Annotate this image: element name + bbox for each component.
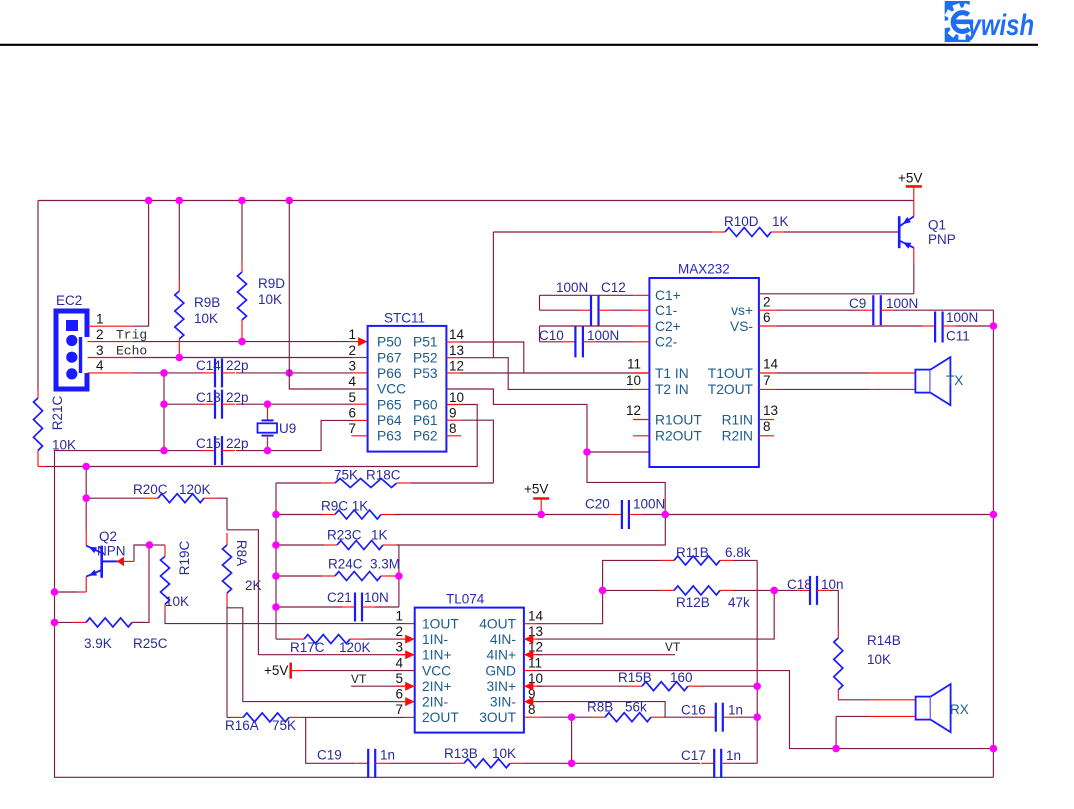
RX top red lead [869, 699, 916, 701]
svg-text:R24C: R24C [328, 557, 363, 572]
wire R10D to Q1 base [784, 231, 899, 233]
resistor R14B 10K [834, 629, 843, 700]
capacitor C20 100N [609, 500, 642, 529]
junction ladder R9C [272, 511, 280, 519]
wire R18C row left [276, 482, 321, 484]
wire Trig row [133, 341, 351, 343]
wire R17C row left [276, 638, 291, 640]
MAX232 C1- stub [633, 309, 649, 311]
TL074 pin11 stub [524, 670, 537, 672]
wire C18 to R14B [830, 590, 838, 629]
resistor R25C 3.9K [73, 618, 145, 627]
capacitor C19 1n [355, 749, 388, 778]
wire C2- row left [540, 341, 563, 343]
wire C13 row to STC11 pin5 [236, 403, 352, 405]
svg-text:120K: 120K [179, 482, 211, 497]
wire STC11 row4 right net [446, 389, 665, 515]
wire R23C-C21 vertical [398, 545, 400, 607]
STC11 pin5 stub [352, 403, 368, 405]
TL074 pin6 arrow [405, 697, 415, 706]
resistor R15B 160 [629, 682, 701, 691]
junction RX GND [832, 745, 840, 753]
wire R18C row right [411, 482, 493, 484]
junction P60 row Q2 collector [82, 463, 90, 471]
svg-text:1K: 1K [371, 528, 388, 543]
resistor R16A 75K [230, 713, 302, 722]
power +5V TL074 lead [291, 670, 306, 672]
Q2 base red lead [124, 560, 134, 562]
junction C13 left [160, 400, 168, 408]
wire to MAX232 bottom left [587, 451, 666, 453]
wire R14B to RX top [838, 699, 869, 701]
svg-text:TL074: TL074 [446, 592, 485, 607]
svg-text:10K: 10K [194, 311, 218, 326]
wire R19C bottom to TL074 pin1 [165, 613, 405, 624]
svg-text:STC11: STC11 [384, 311, 425, 326]
svg-text:R10D: R10D [724, 214, 759, 229]
wire 4OUT up to R11B [537, 560, 662, 623]
resistor R9C 1K [322, 510, 394, 519]
wire Q1 base net vertical [492, 232, 494, 358]
svg-text:5: 5 [348, 390, 356, 405]
speaker RX [916, 684, 951, 732]
svg-text:C2-: C2- [655, 335, 677, 350]
svg-text:VT: VT [351, 672, 367, 687]
wire C1- row left [540, 309, 579, 311]
svg-text:C15: C15 [196, 436, 221, 451]
MAX232 R1IN stub [759, 419, 774, 421]
TL074 pin8 stub [524, 716, 542, 718]
junction right rail C11 row [990, 322, 998, 330]
junction R24C right [395, 572, 403, 580]
svg-text:R14B: R14B [867, 633, 901, 648]
svg-text:2IN-: 2IN- [422, 694, 448, 709]
junction ground R25C [51, 619, 59, 627]
svg-text:Q2: Q2 [99, 529, 117, 544]
MAX232 T2IN stub [633, 388, 649, 390]
STC11 pin7 stub [351, 435, 367, 437]
wire cap ground vertical [163, 373, 165, 451]
resistor R24C 3.3M [322, 572, 394, 581]
TL074 pin10 arrow [524, 682, 534, 691]
wire rail to STC11 VCC [289, 201, 367, 390]
wire C21 row right [375, 606, 399, 608]
TX bottom red lead [869, 388, 915, 390]
svg-text:2K: 2K [245, 578, 262, 593]
svg-text:GND: GND [485, 663, 516, 678]
resistor R11B 6.8k [661, 556, 733, 565]
svg-text:C9: C9 [849, 296, 866, 311]
svg-text:R9C 1K: R9C 1K [321, 499, 368, 514]
resistor R9B 10K [175, 281, 184, 349]
wire R8A top to TL074 pin3 [227, 530, 405, 655]
TL074 pin5 arrow [405, 682, 415, 691]
svg-text:P65: P65 [377, 397, 402, 412]
wire 3OUT to node [542, 716, 571, 718]
svg-text:3: 3 [395, 640, 403, 655]
svg-text:vs+: vs+ [731, 303, 753, 318]
junction ladder R23C [272, 541, 280, 549]
resistor R8B 56k [592, 713, 664, 722]
svg-text:120K: 120K [339, 640, 371, 655]
svg-text:14: 14 [528, 609, 544, 624]
svg-text:+5V: +5V [264, 663, 288, 678]
svg-text:3.9K: 3.9K [84, 636, 112, 651]
TL074 pin1 stub [405, 623, 415, 625]
svg-text:R16A: R16A [225, 718, 259, 733]
STC11 pin12 stub [446, 372, 460, 374]
wire R9C row left [276, 514, 322, 516]
svg-text:14: 14 [449, 327, 465, 342]
STC11 pin13 stub [446, 357, 460, 359]
MAX232 T1OUT stub [759, 372, 777, 374]
svg-text:P64: P64 [377, 413, 402, 428]
svg-text:1n: 1n [380, 748, 395, 763]
svg-text:12: 12 [449, 359, 464, 374]
junction Q2 base node [146, 541, 154, 549]
svg-text:10N: 10N [364, 590, 389, 605]
wire Echo row [133, 357, 353, 359]
svg-text:3: 3 [96, 343, 104, 358]
svg-text:75K: 75K [334, 468, 358, 483]
capacitor C15 22p [202, 436, 235, 465]
svg-text:10K: 10K [492, 746, 516, 761]
junction R12B C18 [770, 587, 778, 595]
svg-text:R21C: R21C [50, 395, 65, 430]
junction Echo R9B [176, 354, 184, 362]
svg-text:R9B: R9B [194, 295, 220, 310]
svg-text:8: 8 [763, 419, 771, 434]
wire RX bottom to GND [836, 715, 869, 717]
wire 4IN- to R12B node [537, 590, 775, 639]
svg-text:VCC: VCC [377, 382, 406, 397]
MAX232 R1OUT stub [633, 419, 649, 421]
svg-text:ywish: ywish [966, 7, 1034, 41]
svg-text:1IN-: 1IN- [422, 632, 448, 647]
svg-text:4IN-: 4IN- [490, 632, 516, 647]
wire R12B right [733, 589, 774, 591]
svg-text:14: 14 [763, 357, 779, 372]
svg-text:5: 5 [395, 671, 403, 686]
svg-text:VS-: VS- [730, 319, 753, 334]
svg-text:MAX232: MAX232 [678, 262, 730, 277]
wire R10D row left [493, 231, 712, 233]
junction MAX232 bottom net [583, 448, 591, 456]
TL074 pin13 stub [524, 638, 543, 640]
wire R12B node to C18 [774, 589, 797, 591]
TL074 pin13 arrow [524, 635, 534, 644]
svg-text:T2OUT: T2OUT [708, 382, 754, 397]
svg-text:6: 6 [395, 687, 403, 702]
wire P61 down [461, 420, 494, 483]
junction crystal bottom [264, 447, 272, 455]
svg-text:R20C: R20C [133, 482, 168, 497]
svg-text:TX: TX [946, 373, 963, 388]
resistor R20C 120K [145, 494, 217, 503]
svg-text:2: 2 [348, 343, 356, 358]
svg-text:11: 11 [627, 357, 641, 372]
connector EC2 [56, 311, 91, 389]
resistor R19C 10K [161, 557, 170, 614]
wire C13 row left [164, 403, 202, 405]
wire R20C row left [86, 497, 145, 499]
R9B bottom red lead [178, 349, 180, 358]
svg-text:C2+: C2+ [655, 319, 681, 334]
svg-text:1n: 1n [726, 748, 741, 763]
wire C11 right [956, 325, 994, 327]
power +5V TL074 symbol [289, 663, 292, 679]
svg-text:10K: 10K [867, 652, 891, 667]
junction VCC crossing C14 row [286, 369, 294, 377]
wire R13B to C17 [523, 762, 700, 764]
svg-text:10: 10 [626, 373, 641, 388]
svg-text:75K: 75K [272, 718, 296, 733]
wire VT stub pin12 [537, 654, 676, 656]
wire R17C to pin2 [363, 638, 405, 640]
speaker TX [915, 357, 950, 405]
TL074 pin2 stub [396, 638, 415, 640]
TL074 pin12 stub [524, 654, 543, 656]
svg-text:C12: C12 [601, 280, 626, 295]
wire R25C right up to Q2 base node [132, 545, 149, 622]
wire R11B right [733, 559, 757, 561]
wire P51 to T1IN jog [460, 342, 524, 373]
svg-text:R12B: R12B [676, 595, 710, 610]
wire C1+ row [540, 294, 634, 296]
junction Trig R9D [238, 338, 246, 346]
wire C2+ row [540, 325, 634, 327]
svg-text:13: 13 [763, 403, 778, 418]
R8A top lead [226, 533, 228, 545]
MAX232 C2+ stub [633, 325, 649, 327]
svg-text:C17: C17 [681, 748, 706, 763]
junction R15B feedback [753, 682, 761, 690]
svg-text:1n: 1n [728, 703, 743, 718]
svg-text:4: 4 [96, 358, 104, 373]
svg-text:6: 6 [348, 405, 356, 420]
svg-text:R9D: R9D [258, 276, 285, 291]
svg-text:R13B: R13B [444, 746, 478, 761]
junction 4OUT R12B [599, 587, 607, 595]
svg-text:U9: U9 [279, 421, 296, 436]
svg-text:C10: C10 [539, 328, 564, 343]
svg-text:C11: C11 [946, 329, 970, 344]
wire R12B left [603, 589, 661, 591]
wire C21 row left [276, 606, 342, 608]
svg-text:1K: 1K [772, 214, 789, 229]
power +5V mid symbol [533, 497, 549, 500]
STC11 pin6 stub [353, 419, 368, 421]
resistor R21C 10K [34, 398, 47, 467]
junction 3OUT node [568, 713, 576, 721]
TX top red lead [869, 372, 915, 374]
junction R20C Q2 collector [82, 494, 90, 502]
resistor R12B 47k [661, 586, 733, 595]
svg-text:P63: P63 [377, 429, 402, 444]
MAX232 vs+ stub [759, 309, 777, 311]
capacitor C18 10n [797, 576, 830, 605]
power +5V mid lead [540, 499, 542, 515]
svg-text:R1IN: R1IN [722, 412, 753, 427]
svg-text:PNP: PNP [928, 232, 956, 247]
TL074 pin9 arrow [524, 697, 534, 706]
wire Q2 collector lead upper [85, 498, 87, 530]
crystal U9 [258, 404, 278, 450]
resistor R13B 10K [451, 759, 523, 768]
svg-text:2: 2 [395, 624, 403, 639]
junction +5V C20 [537, 511, 545, 519]
svg-text:R23C: R23C [327, 528, 362, 543]
svg-text:7: 7 [348, 421, 356, 436]
svg-text:100N: 100N [633, 497, 665, 512]
junction C14 left [160, 369, 168, 377]
wire Q2 base jog [134, 545, 149, 561]
junction C19 row node [568, 760, 576, 768]
svg-text:100N: 100N [556, 280, 588, 295]
svg-text:1IN+: 1IN+ [422, 648, 452, 663]
TL074 pin7 stub [405, 716, 415, 718]
svg-text:11: 11 [528, 656, 542, 671]
wire C20 row right [642, 514, 994, 516]
junction ladder R24C [272, 572, 280, 580]
Q1 emitter red lead [913, 186, 915, 216]
svg-text:10K: 10K [258, 292, 282, 307]
svg-text:3: 3 [348, 359, 356, 374]
wire C19 to R13B [388, 762, 451, 764]
wire P53 to T1IN row [460, 372, 633, 374]
svg-text:C14: C14 [196, 358, 221, 373]
svg-text:22p: 22p [226, 358, 249, 373]
capacitor C21 10N [342, 593, 375, 622]
svg-text:P52: P52 [413, 350, 438, 365]
TL074 pin3 stub [396, 654, 415, 656]
svg-text:R19C: R19C [177, 540, 192, 575]
wire ground C15 row left vertical and bottom rail [55, 451, 994, 778]
junction C15 left [160, 447, 168, 455]
wire R9C to +5V node [394, 514, 541, 516]
wire VT stub pin5 [351, 685, 405, 687]
svg-text:P53: P53 [413, 366, 438, 381]
wire +5V to TL074 pin4 [306, 670, 415, 672]
wire R20C right down [217, 498, 227, 530]
svg-text:10: 10 [449, 390, 464, 405]
svg-text:100N: 100N [587, 328, 619, 343]
svg-text:4OUT: 4OUT [479, 617, 516, 632]
MAX232 R2IN stub [759, 435, 774, 437]
svg-text:P61: P61 [413, 413, 438, 428]
wire C16 right [736, 716, 757, 718]
IC MAX232 box [649, 278, 759, 467]
wire top +5V rail [38, 200, 914, 202]
svg-text:P51: P51 [413, 335, 438, 350]
wire R8B to C16 [664, 716, 703, 718]
capacitor C12 100N [578, 295, 612, 325]
svg-text:P66: P66 [377, 366, 402, 381]
junction rail EC2 pin1 [145, 197, 153, 205]
junction rail VCC [286, 197, 294, 205]
wire Q2 base to R19C [149, 544, 165, 546]
wire vs+ row to C9 [777, 309, 860, 311]
wire R11B feedback vertical [756, 560, 758, 763]
wire C20 row left [541, 514, 609, 516]
wire EC2 pin1 to rail [133, 201, 149, 327]
STC11 pin8 stub [446, 435, 461, 437]
junction ladder C21 [272, 603, 280, 611]
Q2 emitter red lead [85, 577, 87, 592]
wire EC2 pin4 to C14 [133, 372, 203, 374]
resistor R17C 120K [291, 635, 363, 644]
wire pin9 to 3OUT row [537, 702, 666, 718]
svg-text:4IN+: 4IN+ [486, 648, 516, 663]
svg-text:R18C: R18C [366, 468, 401, 483]
wire GND row [537, 671, 994, 749]
wire R23C row left [276, 544, 324, 546]
svg-text:2OUT: 2OUT [422, 710, 459, 725]
svg-text:C16: C16 [681, 703, 706, 718]
wire Q1 collector row [759, 293, 914, 295]
wire Q1 collector down [913, 263, 915, 293]
transistor Q1 PNP [899, 216, 914, 249]
svg-text:2: 2 [763, 295, 771, 310]
svg-text:R2IN: R2IN [722, 429, 753, 444]
wire P60 net row [46, 404, 477, 466]
svg-text:10K: 10K [165, 594, 189, 609]
svg-text:22p: 22p [226, 436, 249, 451]
TL074 pin12 arrow [524, 650, 534, 659]
Q2 emitter red lead h [77, 591, 86, 593]
svg-text:47k: 47k [728, 595, 750, 610]
junction C20 right [661, 511, 669, 519]
svg-text:4: 4 [395, 656, 403, 671]
svg-text:3.3M: 3.3M [370, 557, 400, 572]
header rule [0, 44, 1038, 46]
svg-text:T1 IN: T1 IN [655, 366, 689, 381]
svg-text:100N: 100N [886, 296, 918, 311]
capacitor C11 100N [922, 312, 956, 343]
wire RX bottom down [835, 716, 837, 748]
TL074 pin14 stub [524, 623, 537, 625]
svg-text:C1-: C1- [655, 303, 677, 318]
svg-text:C18: C18 [787, 577, 812, 592]
TL074 pin10 stub [524, 685, 543, 687]
TL074 pin2 arrow [405, 635, 415, 644]
svg-text:9: 9 [449, 405, 457, 420]
svg-text:Trig: Trig [116, 328, 147, 343]
R19C top lead [164, 545, 166, 557]
svg-text:+5V: +5V [898, 171, 922, 186]
resistor R23C 1K [324, 541, 396, 550]
svg-text:7: 7 [763, 373, 771, 388]
wire R8A bottom down [226, 606, 228, 717]
junction ground Q2 emitter [51, 588, 59, 596]
RX bottom red lead [869, 715, 916, 717]
Q1 collector red lead [913, 248, 915, 264]
wire vs+ row right and right rail [894, 310, 993, 777]
svg-text:RX: RX [950, 702, 969, 717]
wire C10 loop left [539, 326, 541, 342]
svg-text:1: 1 [348, 327, 356, 342]
svg-text:EC2: EC2 [56, 293, 82, 308]
EC2 pin2 stub Trig [88, 341, 133, 343]
svg-text:P67: P67 [377, 350, 402, 365]
svg-text:2IN+: 2IN+ [422, 679, 452, 694]
junction rail R9D [238, 197, 246, 205]
wire R9D top [241, 201, 243, 263]
resistor R8A 2K [223, 545, 232, 606]
TL074 pin3 arrow [405, 650, 415, 659]
MAX232 T1IN stub red [633, 372, 649, 374]
STC11 pin9 stub [446, 419, 460, 421]
